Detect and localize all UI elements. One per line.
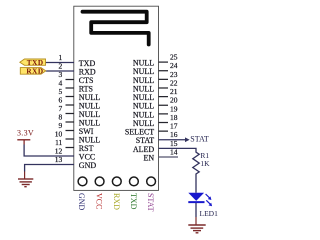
svg-text:VCC: VCC [95, 193, 104, 209]
svg-text:13: 13 [55, 155, 63, 164]
svg-text:TXD: TXD [27, 59, 44, 67]
svg-text:GND: GND [79, 161, 97, 170]
svg-text:GND: GND [77, 193, 86, 211]
svg-text:RXD: RXD [26, 68, 43, 76]
svg-text:STAT: STAT [190, 134, 209, 143]
svg-text:LED1: LED1 [200, 209, 219, 218]
svg-text:RXD: RXD [112, 193, 121, 210]
svg-text:TXD: TXD [129, 193, 138, 210]
svg-text:STAT: STAT [146, 193, 155, 212]
svg-text:3.3V: 3.3V [17, 129, 34, 138]
svg-text:1K: 1K [200, 159, 210, 168]
svg-text:14: 14 [170, 147, 178, 156]
svg-text:EN: EN [144, 153, 155, 162]
